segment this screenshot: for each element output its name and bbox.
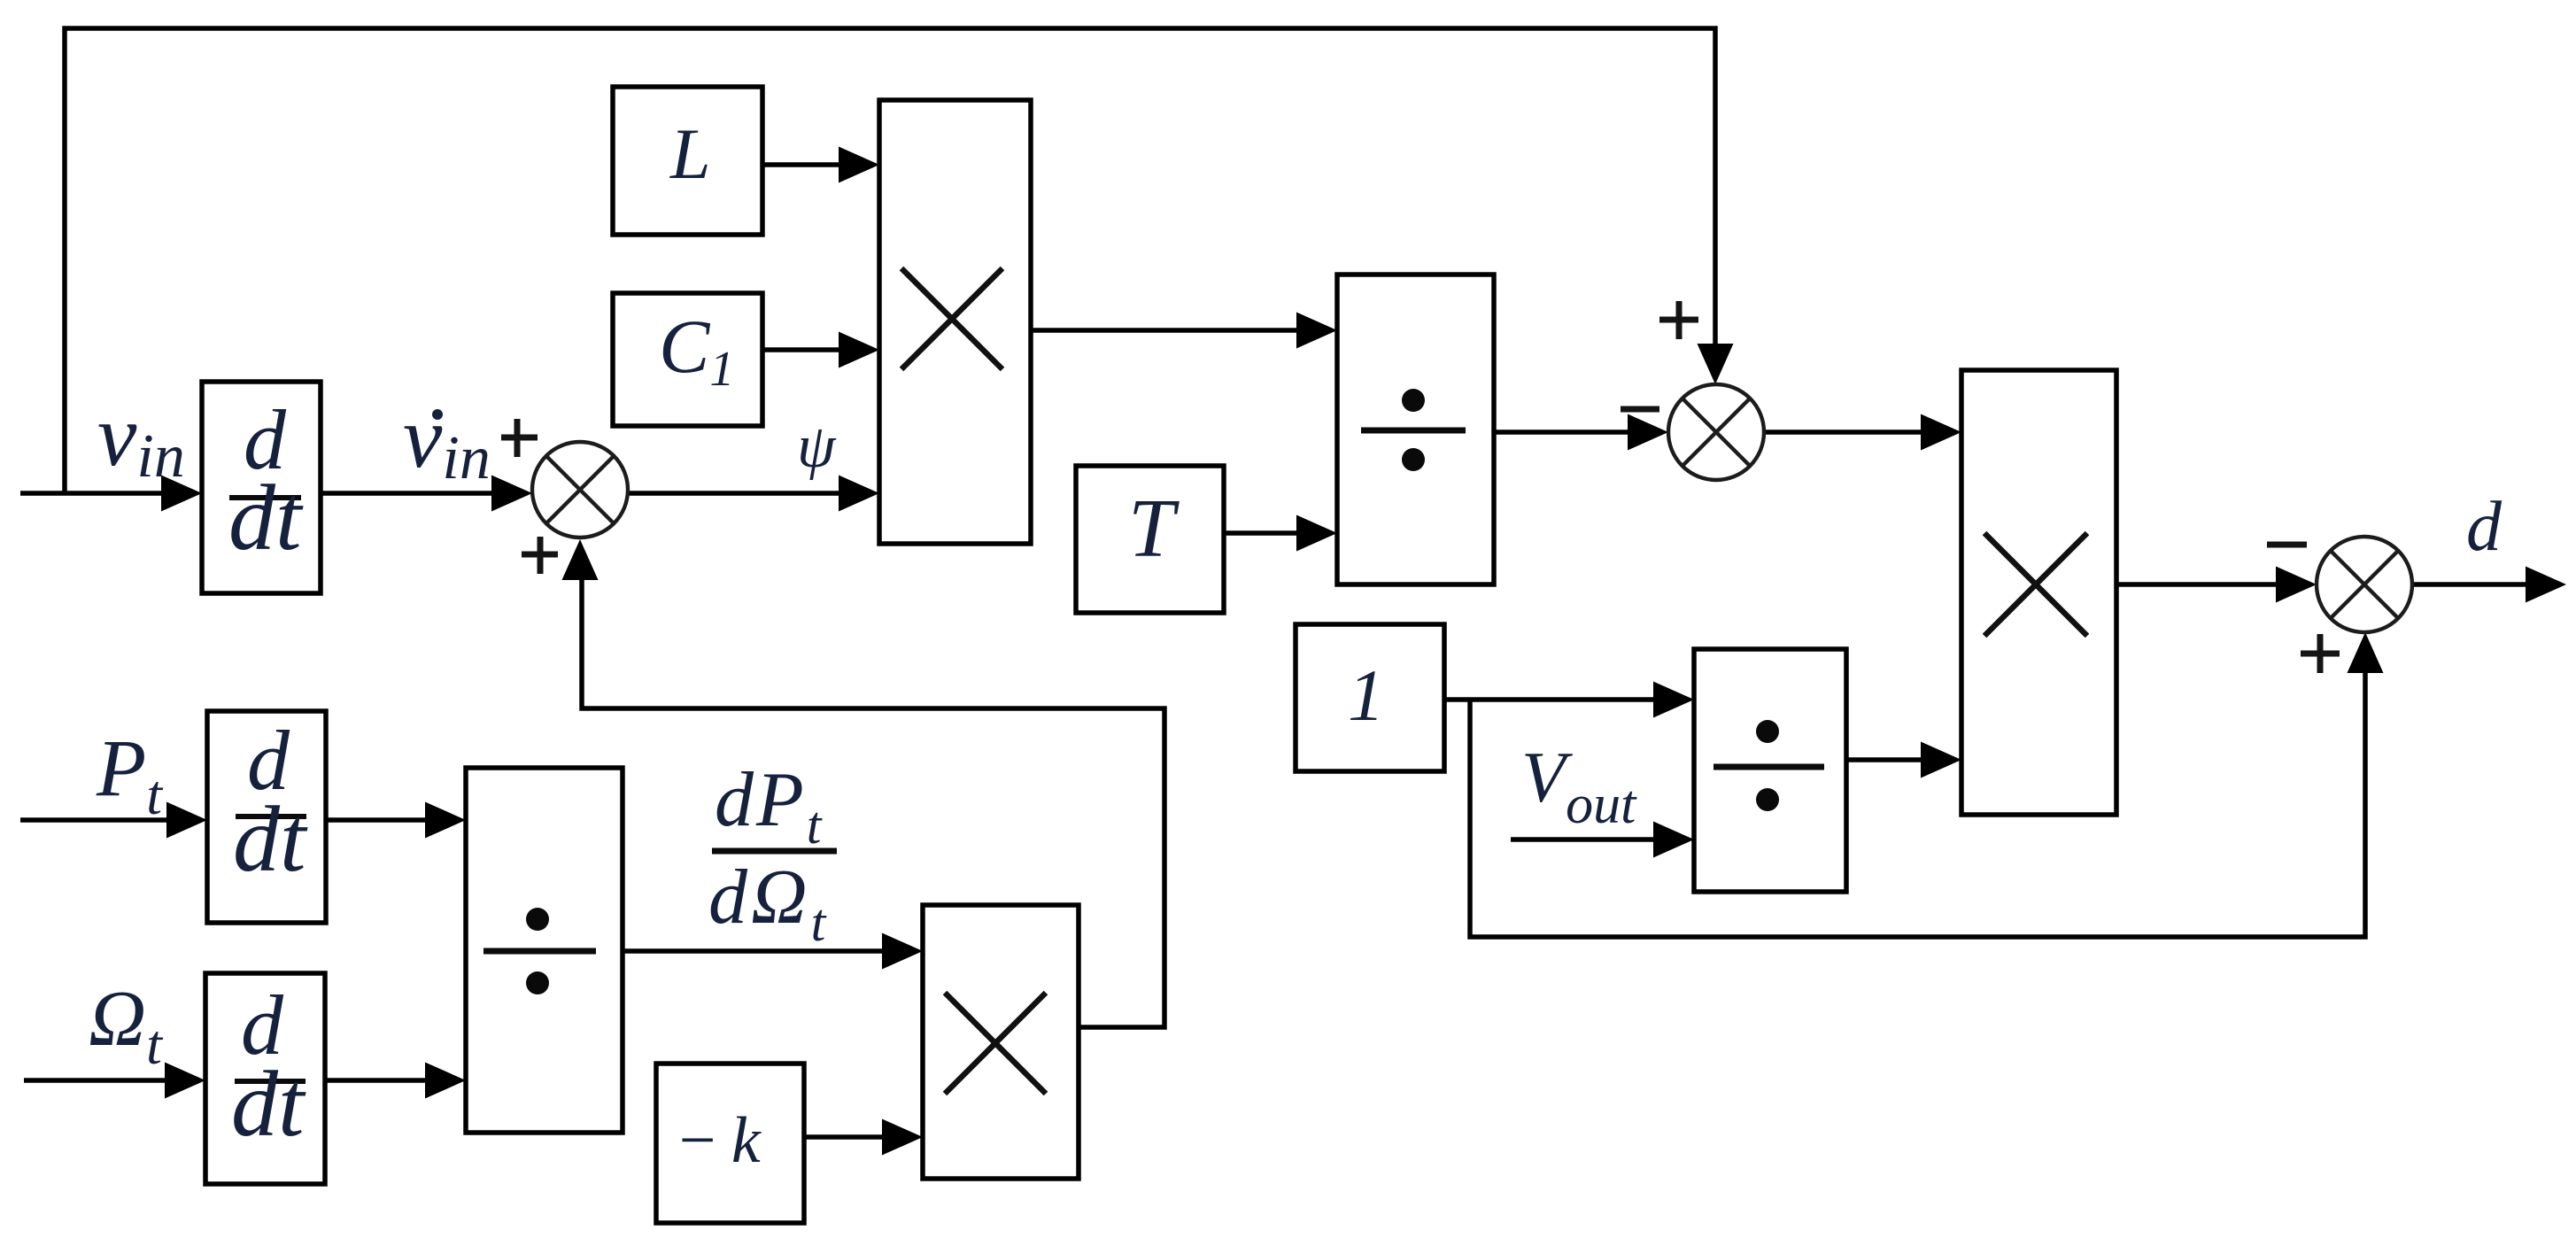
svg-text:1: 1 (1348, 654, 1385, 736)
sign plus sum1 upper (501, 419, 538, 457)
wire Pt input (20, 817, 177, 823)
svg-text:dt: dt (233, 787, 308, 891)
wire sum3 output d (2412, 582, 2538, 587)
block divider div2 (1694, 649, 1846, 892)
sign minus sum3 (2267, 542, 2307, 548)
svg-text:ψ: ψ (797, 413, 837, 481)
sign minus sum2 (1621, 406, 1659, 413)
wire arrow into sum2 top (1698, 344, 1734, 384)
block constant 1 (1296, 624, 1444, 771)
wire div2 to mult2 (1846, 757, 1932, 762)
sign plus sum1 lower (522, 537, 558, 574)
block multiplier mult1 (879, 100, 1031, 544)
block multiplier mult2 (1961, 370, 2116, 815)
block d/dt2 (207, 711, 326, 923)
label v_in dot (derivative) (403, 388, 491, 492)
wire div3 to mult3 (623, 948, 894, 954)
svg-text:dt: dt (231, 1052, 306, 1156)
wire C1 to mult1 (762, 347, 850, 352)
wire mult1 to div1 (1031, 328, 1309, 333)
wire Omega_t input (24, 1078, 177, 1083)
block divider div3 (466, 768, 623, 1133)
wire -k to mult3 (804, 1134, 894, 1140)
wire Vout to div2 (1511, 837, 1665, 842)
block d/dt3 (205, 973, 325, 1184)
svg-text:dt: dt (228, 466, 304, 569)
wire div1 to sum2 (1494, 429, 1640, 435)
wire L to mult1 (762, 162, 850, 167)
wire top feedback from v_in input up over to sum2 (65, 28, 1715, 493)
summing junction sum2 (1668, 384, 1764, 480)
wire sum1 to mult1 (psi) (628, 491, 850, 496)
sign plus sum3 (2301, 634, 2340, 673)
block gain -k (656, 1064, 804, 1223)
wire d/dt2 to div3 (326, 817, 437, 823)
block multiplier mult3 (923, 905, 1079, 1179)
block d/dt1 (202, 382, 321, 593)
wire mult3 output feedback to sum1 (582, 567, 1164, 1027)
svg-text:dPt: dPt (715, 757, 823, 855)
svg-text:T: T (1128, 483, 1180, 575)
wire T to div1 (1224, 530, 1309, 536)
block T (1076, 466, 1224, 613)
summing junction sum3 (2317, 537, 2412, 632)
svg-text:−k: −k (675, 1104, 773, 1177)
block C1 (613, 293, 762, 426)
wire bottom feedback from 1-output junction to sum3 bottom (1470, 661, 2365, 937)
wire block1 to div2 (1444, 697, 1665, 702)
wire d/dt1 to sum1 (321, 491, 505, 496)
svg-text:d: d (2466, 488, 2503, 566)
wire mult2 to sum3 (2116, 582, 2288, 587)
block divider div1 (1337, 275, 1494, 584)
wire d/dt3 to div3 (325, 1078, 437, 1083)
wire v_in input (20, 491, 177, 496)
summing junction sum1 (532, 442, 628, 538)
block L (613, 87, 762, 235)
wire sum2 to mult2 (1764, 429, 1932, 435)
sign plus sum2 (1659, 301, 1698, 339)
svg-text:L: L (669, 113, 711, 194)
svg-text:dΩt: dΩt (708, 855, 827, 952)
label dPt/dOmega_t fraction (708, 757, 837, 952)
